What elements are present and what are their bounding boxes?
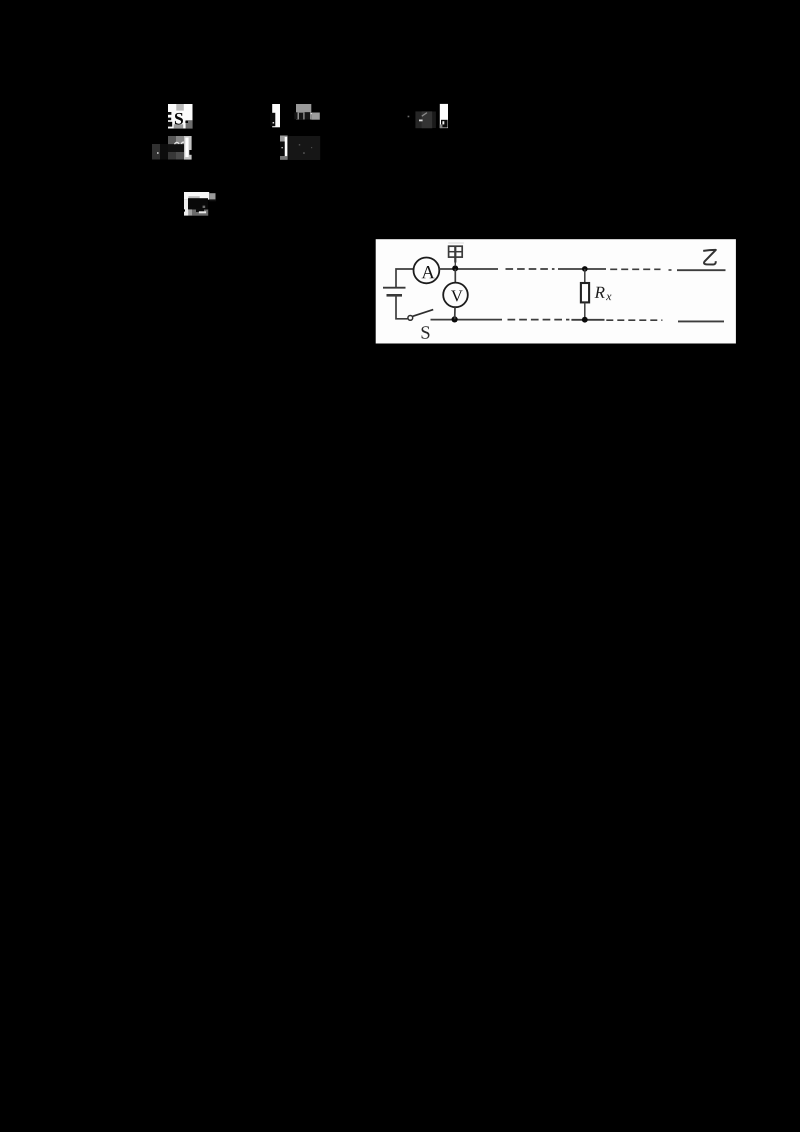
wire: voltmeter down to bottom node [454, 307, 456, 319]
text fragment 6 [408, 104, 448, 128]
wire: bottom solid segment at Rx [571, 319, 604, 321]
text fragment 2 [152, 136, 193, 160]
wire: battery top lead to ammeter [396, 269, 414, 288]
wire: Rx top lead [584, 269, 586, 283]
node jia junction [452, 265, 458, 271]
wire: Rx bottom lead [584, 303, 586, 320]
voltmeter V1 body [443, 283, 468, 308]
switch S lever [413, 310, 434, 317]
wire: node jia down to voltmeter [454, 269, 456, 284]
wire: top solid segment at Rx [558, 268, 606, 270]
node: bottom-left junction [452, 316, 458, 322]
battery B1 short plate [387, 294, 403, 297]
label S [422, 326, 430, 338]
ammeter A1 letter [422, 266, 435, 278]
wire: bottom dashed segment 2 [606, 319, 662, 321]
ammeter A1 body [414, 258, 440, 284]
wire: ammeter to node jia [439, 268, 498, 270]
wire: battery bottom lead to switch [396, 295, 408, 319]
wire: bottom dashed segment 1 [508, 319, 570, 321]
wire: top dashed segment 1 [506, 268, 555, 270]
label yi (CJK glyph drawn as strokes) [703, 250, 716, 265]
node: Rx top junction [582, 266, 588, 272]
text fragment 3 [183, 192, 216, 216]
label Rx value [595, 287, 605, 298]
text fragment 5 [280, 136, 320, 161]
node: Rx bottom junction [582, 317, 588, 323]
text fragment 1 [168, 104, 193, 129]
wire: bottom right solid segment [678, 320, 724, 322]
voltmeter V1 letter [451, 290, 463, 301]
wire: top right solid segment [669, 269, 672, 271]
resistor Rx body [581, 283, 589, 302]
circuit panel background [376, 239, 736, 343]
wire: top dashed segment 2 [610, 268, 660, 270]
label jia (CJK glyph drawn as strokes) [448, 242, 464, 244]
battery B1 long plate [383, 287, 406, 289]
text fragment 4 [270, 104, 320, 127]
wire: bottom left solid segment [431, 319, 503, 321]
switch S pivot [408, 316, 413, 321]
